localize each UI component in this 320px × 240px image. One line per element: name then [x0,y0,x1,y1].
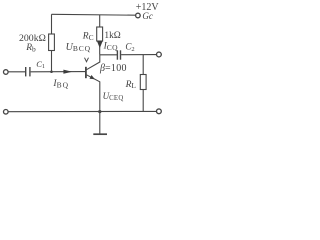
svg-text:1kΩ: 1kΩ [104,31,120,41]
terminal input - [4,110,9,115]
wire bottom rail [8,110,156,112]
wire base [31,71,86,73]
wire Rb top lead [51,14,53,34]
wire RL bottom lead [142,90,144,112]
svg-text:Gc: Gc [142,11,153,21]
wire C2 to output terminal [121,54,156,56]
svg-text:200kΩ: 200kΩ [19,33,46,44]
arrow ICQ on collector wire [97,41,103,48]
svg-text:RL: RL [125,80,137,90]
resistor Rb [49,34,55,51]
svg-text:ICQ: ICQ [103,42,119,52]
wire Rc bottom lead [99,41,101,55]
arrow IBQ on base wire [63,70,72,74]
resistor Rc [97,27,103,41]
wire input to C1 [8,71,25,73]
arrow UBCQ pointer chevron [85,58,89,62]
svg-text:IBQ: IBQ [52,79,69,90]
wire Rb bottom lead [51,51,53,72]
wire top rail [52,13,136,16]
svg-text:Rb: Rb [25,43,36,53]
junction dot emitter bottom-rail node [98,110,101,113]
terminal output + [157,52,162,57]
arrow emitter NPN [90,75,95,79]
wire collector node to C2 [100,54,117,56]
transistor Q1 emitter lead [87,75,100,112]
transistor Q1 collector lead [87,55,100,70]
wire Rc top lead [99,15,101,27]
svg-text:UBCQ: UBCQ [66,42,91,53]
resistor RL [140,75,146,90]
capacitor C2 [117,50,120,59]
junction dot base node [50,70,53,73]
transistor Q1 base bar [85,67,87,78]
svg-text:RC: RC [82,32,94,42]
wire RL top lead [142,55,144,75]
terminal +12V supply [136,13,141,18]
ground [93,133,107,135]
terminal input + [4,70,9,75]
svg-text:β=100: β=100 [99,63,127,74]
terminal output - [157,109,162,114]
capacitor C1 [26,67,30,76]
wire emitter to ground [99,112,101,134]
